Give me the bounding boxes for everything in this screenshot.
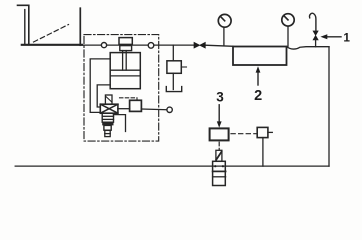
solenoid S1 (hatched box on valve V1) xyxy=(105,95,112,104)
drain tank symbol xyxy=(166,87,181,92)
pilot line (dashed) to pressure switch B1 xyxy=(120,98,138,100)
wire: valve V1 output to pressure switch B1 xyxy=(118,108,130,110)
svg-text:3: 3 xyxy=(216,90,224,105)
pressure switch B1 (square) xyxy=(130,100,142,111)
gauge G1 stem xyxy=(223,27,225,45)
wire: drop from main line to relief valve V2 xyxy=(172,45,174,61)
vent valve stem xyxy=(315,40,317,47)
relief valve V2 (square) xyxy=(167,61,181,74)
vent hook (goose-neck to atmosphere) xyxy=(309,13,315,31)
gauge G2 stem xyxy=(287,26,289,46)
gauge G1 (pressure gauge) xyxy=(218,14,231,27)
wire: right riser pipe xyxy=(328,47,330,166)
controller 3 (box) xyxy=(210,128,229,140)
svg-text:2: 2 xyxy=(254,88,262,104)
tank T1 bottom wall xyxy=(22,44,82,46)
wire: pressure switch B1 to terminal node xyxy=(141,108,167,111)
valve V1 end cap xyxy=(105,130,110,136)
tank T1 fill pipe (top-left, bent spout) xyxy=(18,5,29,44)
cylinder A1 piston rod xyxy=(123,51,127,70)
wire: lower cylinder port pipe xyxy=(97,85,110,107)
valve V1 lower port stack xyxy=(102,113,113,122)
pump M1 drive head (hatched) xyxy=(216,150,222,161)
relief valve V2 adjust tick xyxy=(181,66,186,68)
junction dots on pump body xyxy=(214,165,224,167)
svg-text:1: 1 xyxy=(343,31,350,45)
vent valve 1 (vertical bowtie) xyxy=(313,31,318,40)
valve V1 seal band (filled) xyxy=(102,122,113,125)
node N2 (junction circle on main line) xyxy=(148,43,154,49)
wire: relief valve V2 drain xyxy=(172,73,174,89)
valve V1 lower block xyxy=(104,125,111,130)
cylinder A1 body xyxy=(110,53,140,89)
enclosure: dash-dot boundary of power unit xyxy=(84,35,159,142)
wire: bottom return line xyxy=(15,165,329,167)
gauge G2 (pressure gauge) xyxy=(282,14,294,26)
signal line (dashed) controller to pump M1 xyxy=(218,142,220,150)
wire: valve V1 drain line xyxy=(114,115,126,132)
relay box B2 side tick xyxy=(268,131,272,133)
tank T1 right wall xyxy=(79,8,81,45)
cylinder A1 piston xyxy=(110,70,140,76)
cylinder A1 upper cap block xyxy=(119,38,132,45)
wire: relay box B2 to bottom line xyxy=(262,138,264,167)
pump M1 body xyxy=(213,161,226,185)
node N3 (terminal circle) xyxy=(167,107,172,112)
arrow to controller 3 (label 3 pointer) xyxy=(217,105,222,128)
wire: upper cylinder port pipe xyxy=(90,59,110,113)
arrow to manifold (label 2 pointer) xyxy=(256,66,261,85)
relay box B2 xyxy=(257,127,268,137)
signal line (dashed) controller to relay box xyxy=(231,133,257,135)
cylinder A1 lower cap block xyxy=(120,46,132,51)
tank T1 liquid level (dashed diagonal) xyxy=(34,25,69,43)
wire: line from manifold to right riser (with scan wiggle) xyxy=(287,47,330,50)
node N1 (junction circle on main line) xyxy=(101,43,106,48)
wire: main pressure line from tank to shut-off valve xyxy=(80,44,194,46)
shut-off valve V3 (bowtie on main line) xyxy=(194,42,205,48)
manifold 2 (test chamber rectangle) xyxy=(233,47,287,66)
arrow to vent valve (label 1 pointer) xyxy=(320,34,341,39)
valve V1 body with X xyxy=(100,104,118,113)
wire: main line from shut-off valve to manifold xyxy=(205,45,233,46)
